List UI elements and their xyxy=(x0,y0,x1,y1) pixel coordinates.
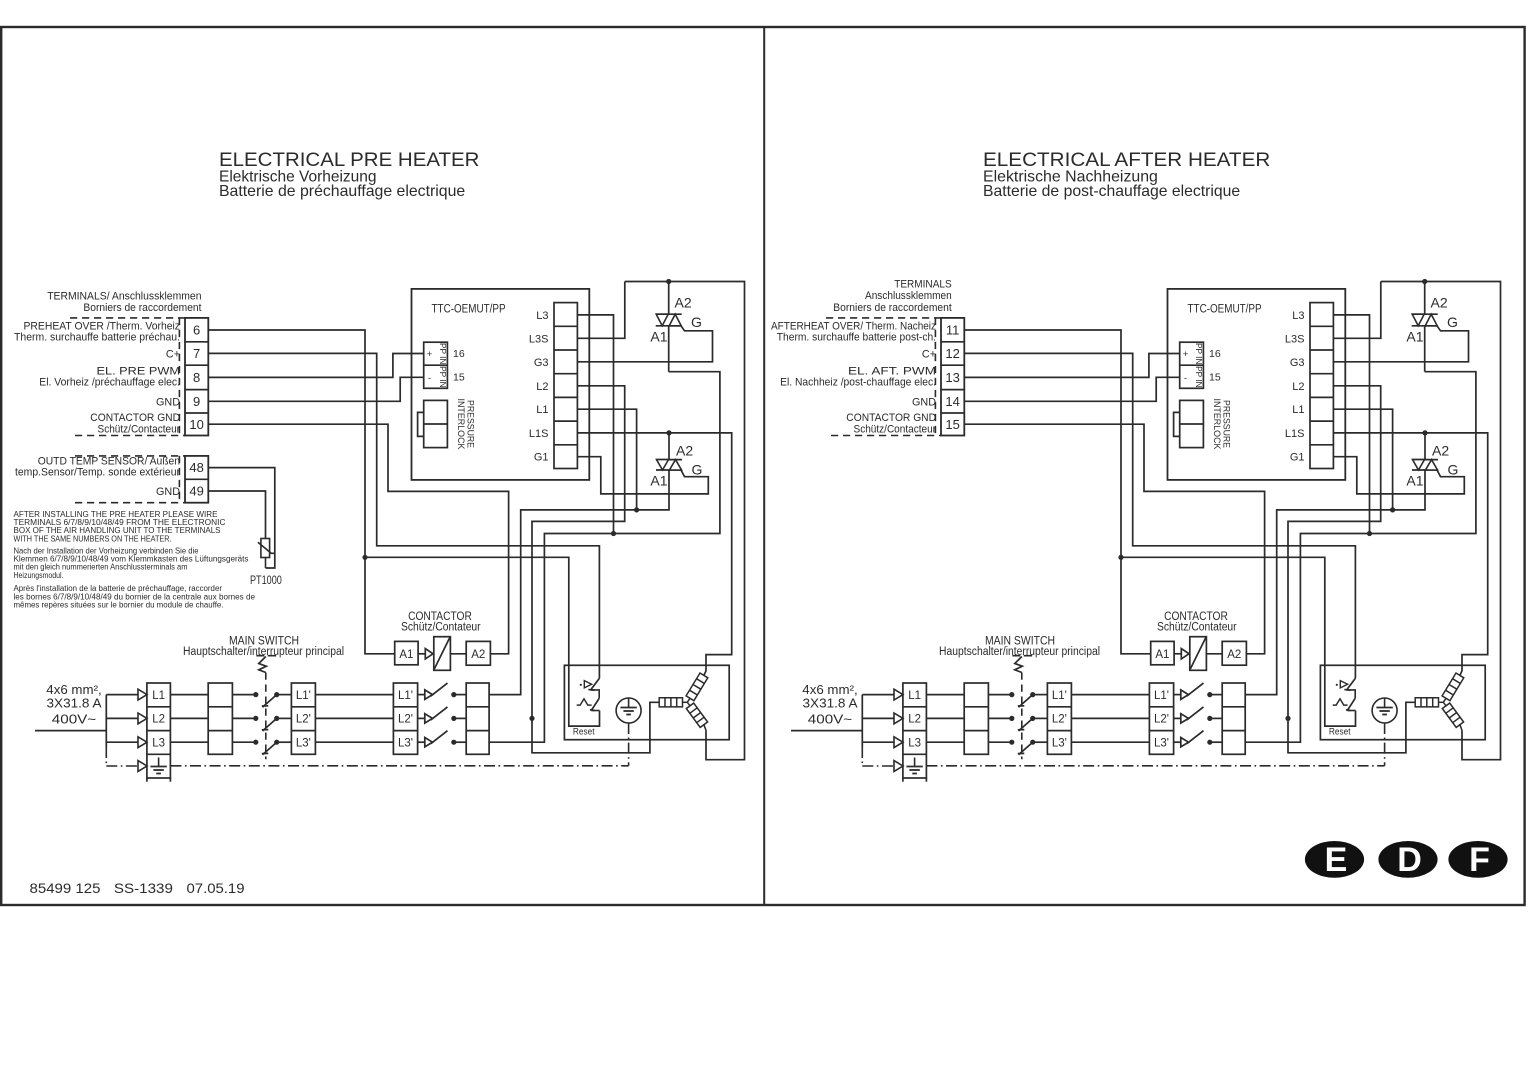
svg-text:Batterie de post-chauffage ele: Batterie de post-chauffage electrique xyxy=(983,183,1240,200)
svg-text:400V~: 400V~ xyxy=(808,712,852,726)
svg-text:L2': L2' xyxy=(296,714,311,726)
svg-text:PT1000: PT1000 xyxy=(250,575,282,587)
svg-text:A1: A1 xyxy=(1155,649,1169,661)
svg-text:G3: G3 xyxy=(1290,357,1305,369)
svg-text:L1: L1 xyxy=(908,690,921,702)
svg-text:TERMINALS: TERMINALS xyxy=(894,279,952,291)
svg-text:A1: A1 xyxy=(399,649,413,661)
svg-text:OUTD TEMP SENSOR/ Außen: OUTD TEMP SENSOR/ Außen xyxy=(38,455,180,467)
svg-text:A1: A1 xyxy=(1406,473,1423,489)
svg-text:3X31.8 A: 3X31.8 A xyxy=(47,697,103,711)
svg-text:Heizungsmodul.: Heizungsmodul. xyxy=(14,571,64,580)
svg-text:Schütz/Contateur: Schütz/Contateur xyxy=(1157,622,1237,634)
svg-text:C+: C+ xyxy=(922,349,936,361)
svg-text:L2': L2' xyxy=(1052,714,1067,726)
svg-text:G3: G3 xyxy=(534,357,549,369)
svg-text:L3: L3 xyxy=(908,738,921,750)
svg-text:SS-1339: SS-1339 xyxy=(114,880,173,896)
svg-text:A2: A2 xyxy=(1227,649,1241,661)
svg-text:L3': L3' xyxy=(1052,738,1067,750)
svg-text:GND: GND xyxy=(912,396,936,408)
svg-text:L3': L3' xyxy=(296,738,311,750)
svg-text:Therm. surchauffe batterie pos: Therm. surchauffe batterie post-ch. xyxy=(777,332,936,344)
svg-text:L2': L2' xyxy=(398,714,413,726)
svg-text:EL. AFT. PWM: EL. AFT. PWM xyxy=(848,365,936,377)
svg-text:GND: GND xyxy=(156,396,180,408)
svg-text:Hauptschalter/interrupteur pri: Hauptschalter/interrupteur principal xyxy=(939,646,1100,658)
svg-text:L1': L1' xyxy=(398,690,413,702)
svg-text:PRESSURE: PRESSURE xyxy=(1221,400,1232,448)
svg-text:L1S: L1S xyxy=(529,428,549,440)
svg-text:A2: A2 xyxy=(1431,295,1448,311)
svg-text:49: 49 xyxy=(189,484,203,499)
svg-text:7: 7 xyxy=(193,346,200,361)
svg-text:L3: L3 xyxy=(1292,310,1304,322)
svg-text:Anschlussklemmen: Anschlussklemmen xyxy=(865,290,952,302)
svg-text:15: 15 xyxy=(945,417,959,432)
svg-text:mêmes repères situées sur le b: mêmes repères situées sur le bornier du … xyxy=(14,600,224,609)
svg-text:G: G xyxy=(691,314,702,330)
svg-text:48: 48 xyxy=(189,460,203,475)
svg-text:PP IN: PP IN xyxy=(438,366,447,388)
svg-text:16: 16 xyxy=(453,348,465,360)
svg-text:L1': L1' xyxy=(296,690,311,702)
svg-text:INTERLOCK: INTERLOCK xyxy=(1211,399,1222,451)
svg-text:3X31.8 A: 3X31.8 A xyxy=(803,697,859,711)
svg-text:8: 8 xyxy=(193,370,200,385)
svg-text:4x6 mm²,: 4x6 mm², xyxy=(802,683,857,697)
svg-text:L1: L1 xyxy=(1292,404,1304,416)
svg-text:-: - xyxy=(1184,373,1187,384)
svg-text:temp.Sensor/Temp. sonde extéri: temp.Sensor/Temp. sonde extérieur xyxy=(15,467,180,479)
svg-text:A2: A2 xyxy=(1432,443,1449,459)
svg-text:11: 11 xyxy=(946,323,960,338)
svg-text:TERMINALS/ Anschlussklemmen: TERMINALS/ Anschlussklemmen xyxy=(47,291,201,303)
svg-text:PP IN: PP IN xyxy=(1194,343,1203,365)
svg-text:G: G xyxy=(1448,462,1459,478)
svg-text:PP IN: PP IN xyxy=(438,343,447,365)
svg-text:Borniers de raccordement: Borniers de raccordement xyxy=(833,302,951,314)
svg-text:D: D xyxy=(1397,841,1422,879)
svg-text:A2: A2 xyxy=(675,295,692,311)
svg-text:4x6 mm²,: 4x6 mm², xyxy=(46,683,101,697)
svg-text:14: 14 xyxy=(945,394,959,409)
svg-text:L2: L2 xyxy=(536,381,548,393)
svg-text:G1: G1 xyxy=(534,452,549,464)
svg-text:400V~: 400V~ xyxy=(52,712,96,726)
svg-text:A1: A1 xyxy=(650,329,667,345)
svg-text:+: + xyxy=(427,349,433,360)
svg-text:C+: C+ xyxy=(166,349,180,361)
svg-text:PP IN: PP IN xyxy=(1194,366,1203,388)
svg-text:A2: A2 xyxy=(676,443,693,459)
svg-text:G: G xyxy=(692,462,703,478)
svg-text:A2: A2 xyxy=(471,649,485,661)
svg-text:9: 9 xyxy=(193,394,200,409)
svg-text:F: F xyxy=(1469,841,1490,879)
svg-text:Schütz/Contateur: Schütz/Contateur xyxy=(401,622,481,634)
svg-text:07.05.19: 07.05.19 xyxy=(187,880,245,896)
svg-text:TTC-OEMUT/PP: TTC-OEMUT/PP xyxy=(432,303,506,315)
svg-text:L3': L3' xyxy=(1154,738,1169,750)
svg-text:Therm. surchauffe batterie pré: Therm. surchauffe batterie préchau. xyxy=(14,332,180,344)
svg-text:Borniers de raccordement: Borniers de raccordement xyxy=(83,302,201,314)
svg-text:EL. PRE PWM: EL. PRE PWM xyxy=(97,365,181,377)
svg-text:TTC-OEMUT/PP: TTC-OEMUT/PP xyxy=(1188,303,1262,315)
svg-text:85499 125: 85499 125 xyxy=(30,880,101,896)
svg-text:GND: GND xyxy=(156,486,180,498)
svg-text:PRESSURE: PRESSURE xyxy=(465,400,476,448)
svg-text:A1: A1 xyxy=(650,473,667,489)
svg-text:L1: L1 xyxy=(152,690,165,702)
svg-text:AFTERHEAT OVER/ Therm. Nacheiz: AFTERHEAT OVER/ Therm. Nacheiz xyxy=(771,320,936,332)
svg-text:PREHEAT OVER /Therm. Vorheiz: PREHEAT OVER /Therm. Vorheiz xyxy=(24,320,181,332)
svg-text:E: E xyxy=(1325,841,1348,879)
svg-text:Reset: Reset xyxy=(1329,727,1351,737)
svg-text:L3: L3 xyxy=(536,310,548,322)
svg-text:El. Vorheiz /préchauffage elec: El. Vorheiz /préchauffage elec. xyxy=(39,377,180,389)
svg-text:16: 16 xyxy=(1209,348,1221,360)
svg-text:13: 13 xyxy=(945,370,959,385)
svg-text:10: 10 xyxy=(189,417,203,432)
svg-text:L2: L2 xyxy=(1292,381,1304,393)
svg-text:A1: A1 xyxy=(1406,329,1423,345)
svg-text:-: - xyxy=(428,373,431,384)
svg-text:CONTACTOR GND: CONTACTOR GND xyxy=(90,412,180,424)
svg-text:L3S: L3S xyxy=(529,333,549,345)
svg-text:G1: G1 xyxy=(1290,452,1305,464)
svg-text:WITH THE SAME NUMBERS ON THE H: WITH THE SAME NUMBERS ON THE HEATER. xyxy=(14,534,172,543)
svg-text:L1': L1' xyxy=(1154,690,1169,702)
svg-text:CONTACTOR GND: CONTACTOR GND xyxy=(846,412,936,424)
svg-text:L1: L1 xyxy=(536,404,548,416)
svg-text:15: 15 xyxy=(453,372,465,384)
svg-text:L3': L3' xyxy=(398,738,413,750)
svg-text:12: 12 xyxy=(945,346,959,361)
svg-text:Hauptschalter/interrupteur pri: Hauptschalter/interrupteur principal xyxy=(183,646,344,658)
svg-text:G: G xyxy=(1447,314,1458,330)
svg-text:+: + xyxy=(1183,349,1189,360)
svg-text:Schütz/Contacteur: Schütz/Contacteur xyxy=(98,423,181,435)
svg-text:El. Nachheiz /post-chauffage e: El. Nachheiz /post-chauffage elec. xyxy=(780,377,936,389)
svg-text:15: 15 xyxy=(1209,372,1221,384)
svg-text:L2': L2' xyxy=(1154,714,1169,726)
svg-text:L1S: L1S xyxy=(1285,428,1305,440)
svg-text:L1': L1' xyxy=(1052,690,1067,702)
svg-text:L2: L2 xyxy=(908,714,921,726)
svg-text:L2: L2 xyxy=(152,714,165,726)
svg-text:Reset: Reset xyxy=(573,727,595,737)
svg-text:L3S: L3S xyxy=(1285,333,1305,345)
svg-text:Batterie de préchauffage elect: Batterie de préchauffage electrique xyxy=(219,183,465,200)
svg-text:6: 6 xyxy=(193,323,200,338)
svg-text:L3: L3 xyxy=(152,738,165,750)
svg-text:Schütz/Contacteur: Schütz/Contacteur xyxy=(854,423,937,435)
svg-text:INTERLOCK: INTERLOCK xyxy=(455,399,466,451)
